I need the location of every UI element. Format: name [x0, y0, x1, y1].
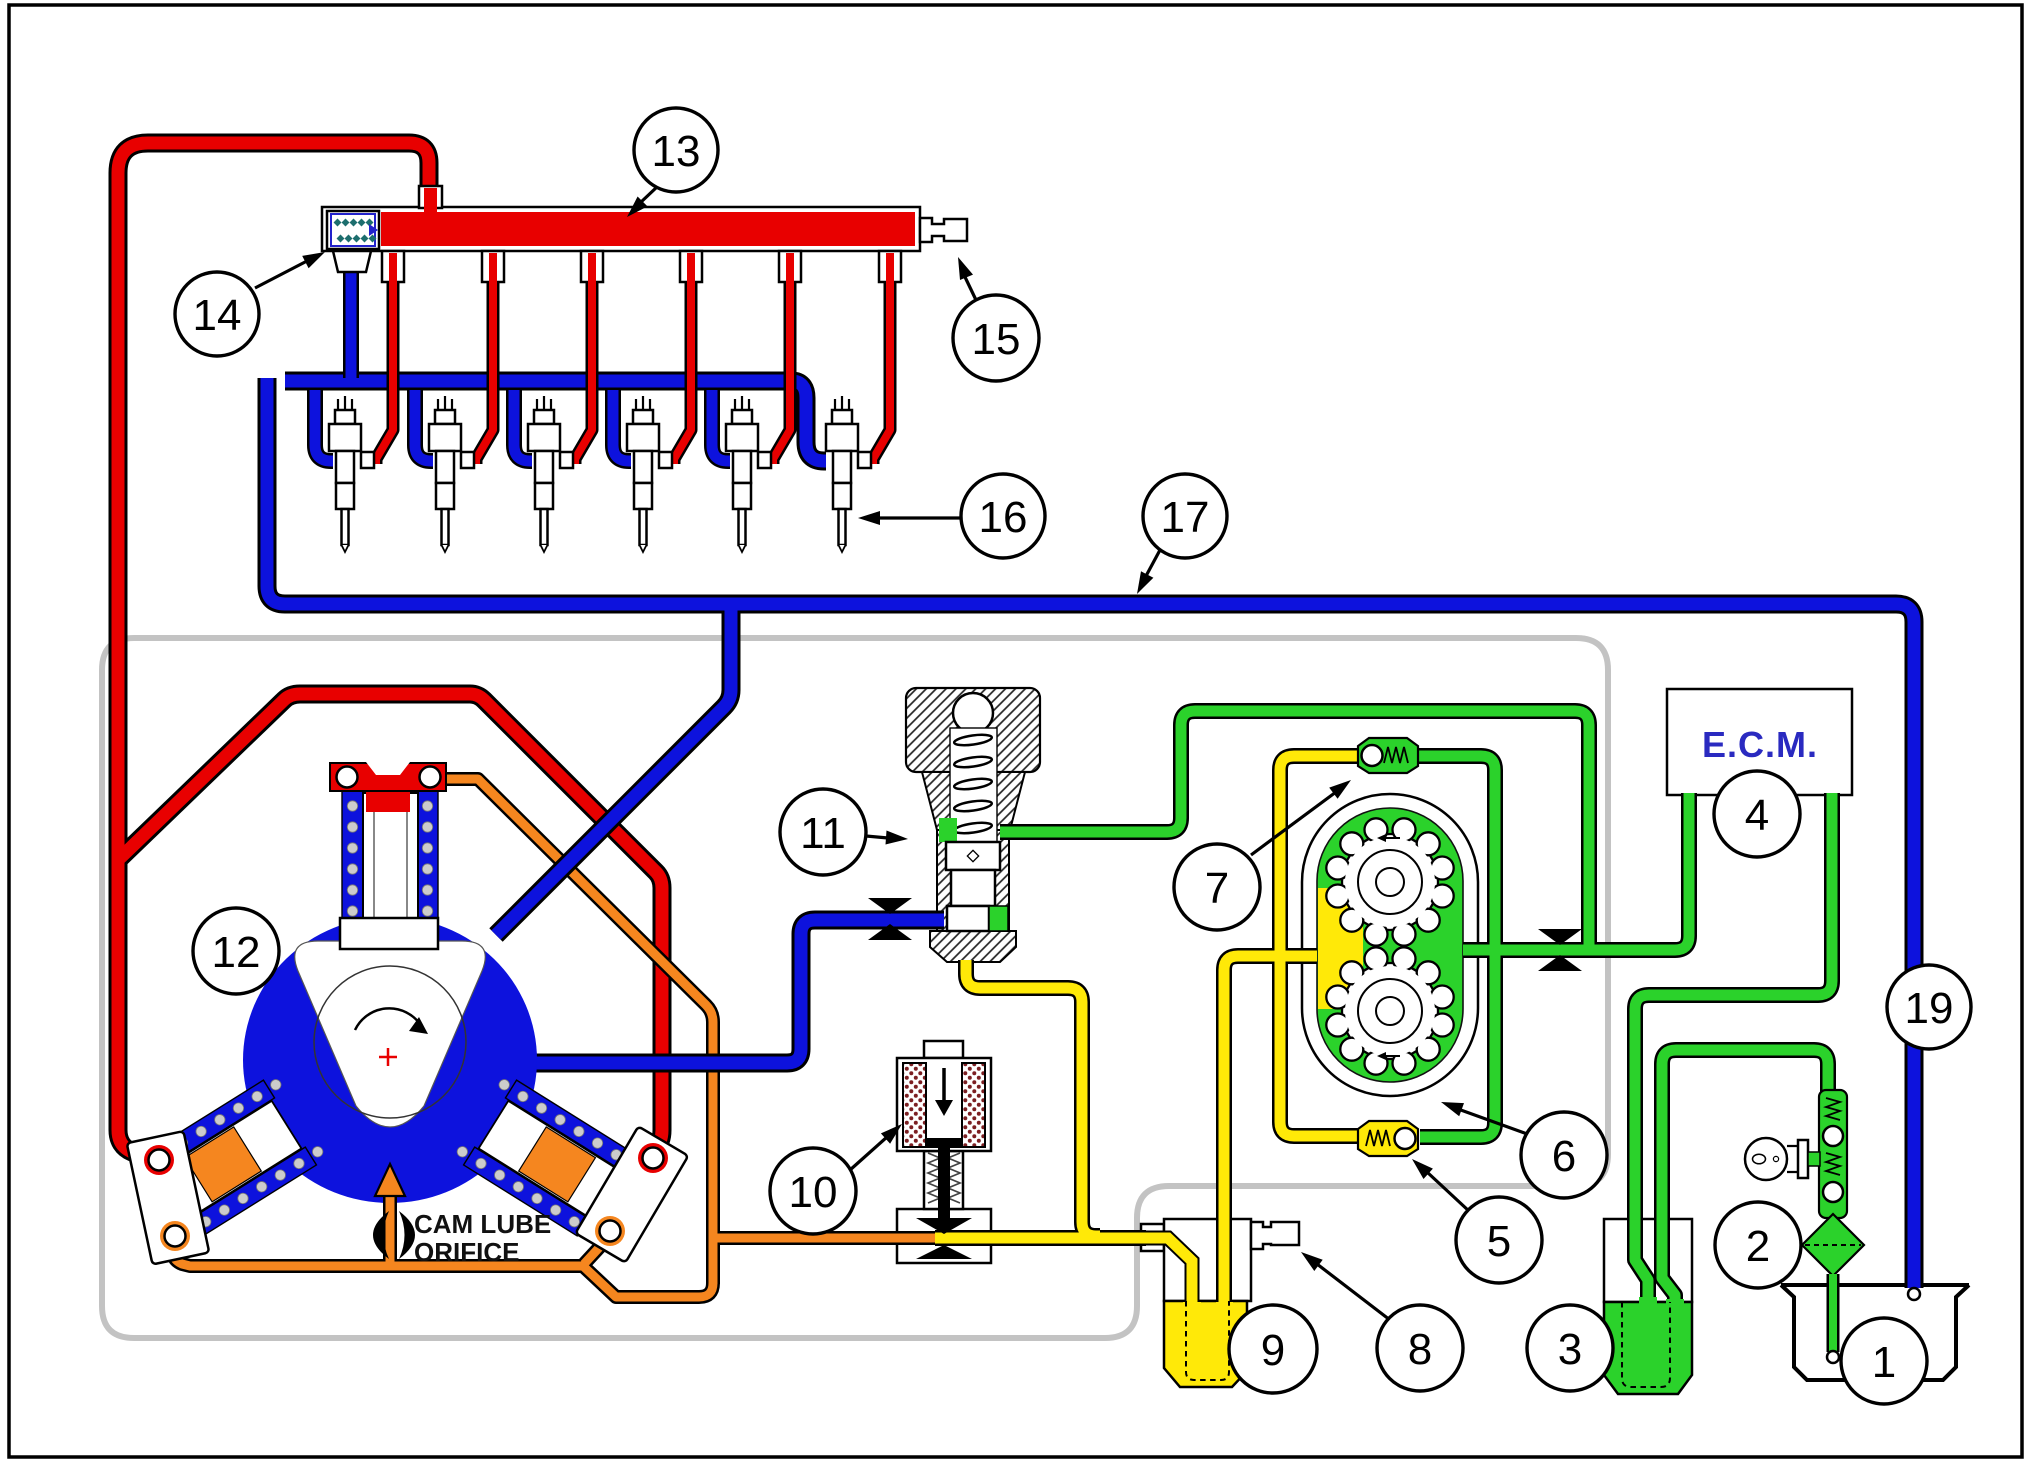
wire: pump outlet to ECM — [1463, 793, 1689, 950]
relief valve item 7 — [1358, 738, 1418, 773]
pump left piston assembly — [150, 1073, 328, 1236]
fuel tank item 1 — [1781, 1285, 1969, 1380]
wire: orange branch to solenoid valve — [713, 1237, 940, 1239]
green fuel lines — [1000, 711, 1832, 1308]
wire: branch from line 17 to pump — [496, 604, 731, 935]
wire: red injector supply drops x6 — [376, 250, 393, 464]
blue return end in tank — [1908, 1288, 1920, 1300]
solenoid valve body item 10 (lower block + coil housing) — [897, 1209, 991, 1263]
blue restriction at IPR inlet — [868, 898, 912, 914]
rotation arrow — [355, 1008, 420, 1030]
wire: gear pump inlet from item 9 — [1224, 956, 1317, 1328]
gear pump upper gear — [1342, 834, 1438, 930]
svg-text:9: 9 — [1261, 1326, 1285, 1375]
pump body blob — [243, 917, 537, 1203]
svg-text:10: 10 — [789, 1168, 838, 1217]
wire: orange link right piston — [584, 1238, 608, 1264]
wire: injector return branches x5 — [315, 390, 333, 461]
blue return / supply lines — [267, 378, 1914, 1288]
wire: IPR drain to main yellow — [966, 960, 1100, 1236]
wire: relief valves left loop — [1280, 756, 1365, 1136]
svg-text:4: 4 — [1745, 791, 1769, 840]
wire: main yellow to item 9 — [935, 1237, 1146, 1239]
rail red charge — [381, 212, 915, 246]
svg-text:5: 5 — [1487, 1217, 1511, 1266]
svg-text:13: 13 — [652, 127, 701, 176]
wire: red roof to right piston — [118, 694, 662, 1162]
IPR valve body item 11 (hatched regulator) — [906, 688, 1040, 772]
orange pump case / actuation oil lines — [173, 779, 940, 1297]
rail sensor item 14 — [327, 211, 379, 249]
item 9 fuel strainer body — [1141, 1224, 1164, 1251]
cam lube orifice symbol and label — [373, 1211, 389, 1259]
relief valve item 5 — [1358, 1121, 1418, 1156]
gear pump lower gear — [1342, 963, 1438, 1059]
svg-text:19: 19 — [1905, 984, 1954, 1033]
svg-text:2: 2 — [1746, 1222, 1770, 1271]
svg-text:E.C.M.: E.C.M. — [1702, 724, 1818, 765]
white cam chamber — [295, 941, 486, 1127]
injector 5 — [726, 396, 771, 552]
svg-text:CAM LUBE: CAM LUBE — [414, 1209, 551, 1239]
injector 6 item 16 — [826, 396, 871, 552]
wire: fuel-rail sensor return drop — [350, 270, 352, 378]
svg-text:15: 15 — [972, 315, 1021, 364]
top piston assembly — [330, 762, 446, 949]
injector 3 — [528, 396, 573, 552]
cam circle — [314, 966, 466, 1118]
wire: relief valves right loop — [1416, 756, 1495, 1137]
E.C.M. box U4 — [1667, 689, 1852, 795]
callout numbers — [193, 127, 1954, 1387]
cam lube arrow over pump — [383, 1196, 397, 1215]
sensor lower port — [333, 251, 371, 272]
wire: orange from top piston down to solenoid — [444, 779, 713, 1284]
svg-text:12: 12 — [212, 928, 261, 977]
rail outer housing — [322, 207, 920, 251]
wire: injector return manifold — [285, 381, 826, 461]
svg-text:1: 1 — [1872, 1338, 1896, 1387]
svg-text:3: 3 — [1558, 1325, 1582, 1374]
svg-text:14: 14 — [193, 291, 242, 340]
injector 1 — [329, 396, 374, 552]
red center cross — [379, 1048, 397, 1066]
svg-text:6: 6 — [1552, 1132, 1576, 1181]
wire: pump outlet to IPR valve — [530, 920, 944, 1063]
svg-text:ORIFICE: ORIFICE — [414, 1237, 519, 1267]
wire: orange bottom loop under pump — [173, 1242, 713, 1297]
item 9 internals — [1143, 1222, 1299, 1380]
injector 2 — [429, 396, 474, 552]
svg-text:17: 17 — [1161, 493, 1210, 542]
gear pump item 6 housing — [1302, 794, 1478, 1096]
injector 4 — [627, 396, 672, 552]
wire: return line 17 long run to tank — [267, 378, 1914, 1288]
item 3 filter body — [1604, 1219, 1692, 1302]
svg-text:8: 8 — [1408, 1325, 1432, 1374]
callout leader lines — [255, 186, 1530, 1320]
wire: IPR to gear pump outlet loop — [1000, 711, 1589, 950]
svg-text:11: 11 — [800, 809, 846, 858]
item 3 internals — [1639, 1297, 1657, 1311]
gray engine boundary (stepped rounded box) — [102, 638, 1608, 1338]
pump right piston assembly — [452, 1073, 630, 1236]
lower piston pivot caps — [127, 1126, 689, 1264]
wire: filter to primer column — [1662, 1050, 1828, 1308]
rail end plug item 15 — [920, 218, 967, 242]
green restriction after gear pump — [1538, 929, 1582, 945]
svg-text:16: 16 — [979, 493, 1028, 542]
wire: cam lube orifice feed — [389, 1196, 391, 1264]
wire: red main supply rail-to-pump — [118, 143, 429, 1161]
rail injector ports — [382, 251, 404, 282]
rail inlet port — [419, 186, 442, 208]
red high pressure oil lines — [118, 143, 662, 1162]
svg-text:7: 7 — [1205, 864, 1229, 913]
yellow fuel return/inlet lines — [935, 756, 1365, 1328]
wire: ECM to filter item 3 — [1635, 793, 1832, 1306]
